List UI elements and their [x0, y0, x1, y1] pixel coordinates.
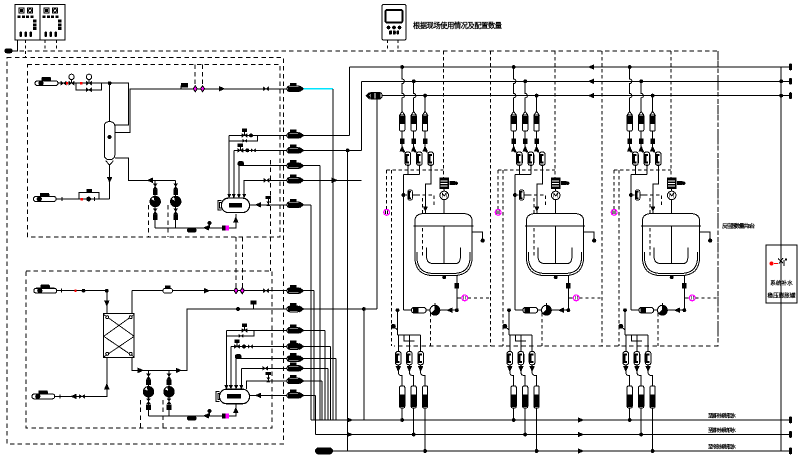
svg-text:系统补水: 系统补水 — [770, 279, 793, 287]
svg-text:稳压膨胀罐: 稳压膨胀罐 — [768, 292, 796, 300]
svg-text:至循环水系统供水: 至循环水系统供水 — [708, 427, 737, 434]
svg-text:反应器数量共8台: 反应器数量共8台 — [722, 222, 756, 230]
svg-text:根据现场使用情况及配置数量: 根据现场使用情况及配置数量 — [413, 21, 503, 30]
svg-text:至循环水系统回水: 至循环水系统回水 — [708, 413, 737, 420]
svg-text:至冷冻水系统回水: 至冷冻水系统回水 — [708, 444, 737, 451]
